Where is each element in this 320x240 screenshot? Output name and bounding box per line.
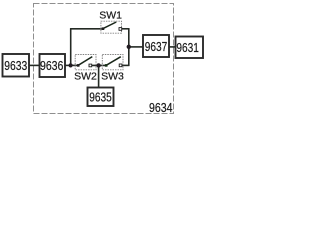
node C junction dot [127,45,131,49]
switch SW1 left pin [102,27,105,30]
block 9635 [88,88,114,107]
wire 9636 to SW2 left pin through node A [65,64,78,66]
node A junction dot [69,63,73,67]
switch SW2 left pin [77,64,80,67]
wire SW3 right ring to riser [121,64,130,66]
svg-text:SW1: SW1 [99,10,122,22]
switch SW3 right pin ring [119,64,122,67]
svg-text:9633: 9633 [4,58,27,73]
wire node B down to 9635 [98,65,100,87]
wire riser up to node C [128,46,130,66]
svg-text:9635: 9635 [89,89,112,104]
wire 9637 to 9631 [169,46,176,48]
switch SW2 lever [78,57,92,66]
block 9637 [143,35,169,57]
node B junction dot [96,63,100,67]
wire 9633 to 9636 [29,64,40,66]
svg-text:SW2: SW2 [74,71,97,83]
block 9636 [40,54,66,77]
wire node A riser up to SW1 level [70,28,72,65]
switch SW3 dashed box [102,55,123,70]
wire SW2 right ring to SW3 left pin through node B [90,64,106,66]
switch SW2 dashed box [75,55,96,70]
switch SW1 right pin ring [119,28,122,31]
switch SW1 lever [103,22,116,29]
block 9633 [3,54,30,77]
wire node C to 9637 [129,46,143,48]
switch SW3 lever [106,57,121,66]
switch SW1 dashed box [101,21,122,33]
wire SW1 right pin to corner [120,28,129,30]
svg-text:9634: 9634 [149,100,173,115]
svg-text:9636: 9636 [40,58,64,73]
svg-text:9637: 9637 [145,39,168,54]
enclosure 9634 dashed boundary [34,4,174,114]
wire corner down to node C [128,28,130,47]
svg-text:9631: 9631 [176,40,199,55]
switch SW2 right pin ring [89,64,92,67]
wire to SW1 left pin [70,28,103,30]
switch SW3 left pin [105,64,108,67]
block 9631 [176,37,204,59]
svg-text:SW3: SW3 [101,71,124,83]
